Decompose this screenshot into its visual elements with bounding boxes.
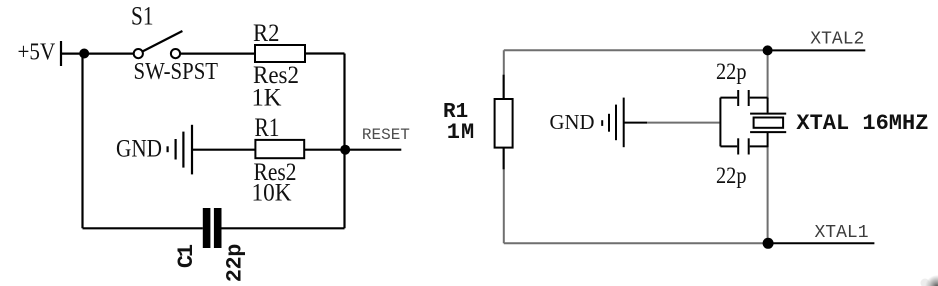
svg-text:GND: GND [550, 110, 595, 134]
svg-text:22p: 22p [716, 59, 747, 84]
svg-text:22p: 22p [223, 244, 248, 283]
svg-text:XTAL 16MHZ: XTAL 16MHZ [796, 111, 928, 136]
svg-text:RESET: RESET [362, 126, 410, 144]
svg-text:10K: 10K [252, 179, 292, 206]
svg-text:22p: 22p [716, 163, 747, 188]
svg-text:C1: C1 [174, 244, 199, 268]
svg-text:XTAL1: XTAL1 [815, 223, 869, 243]
svg-text:R1: R1 [255, 113, 280, 142]
svg-text:1M: 1M [447, 120, 475, 145]
svg-text:S1: S1 [131, 2, 154, 31]
svg-text:R2: R2 [253, 20, 280, 47]
svg-text:1K: 1K [252, 85, 282, 112]
svg-text:SW-SPST: SW-SPST [134, 59, 219, 85]
svg-text:+5V: +5V [18, 39, 56, 65]
svg-text:GND: GND [116, 136, 162, 163]
svg-text:XTAL2: XTAL2 [810, 30, 864, 50]
